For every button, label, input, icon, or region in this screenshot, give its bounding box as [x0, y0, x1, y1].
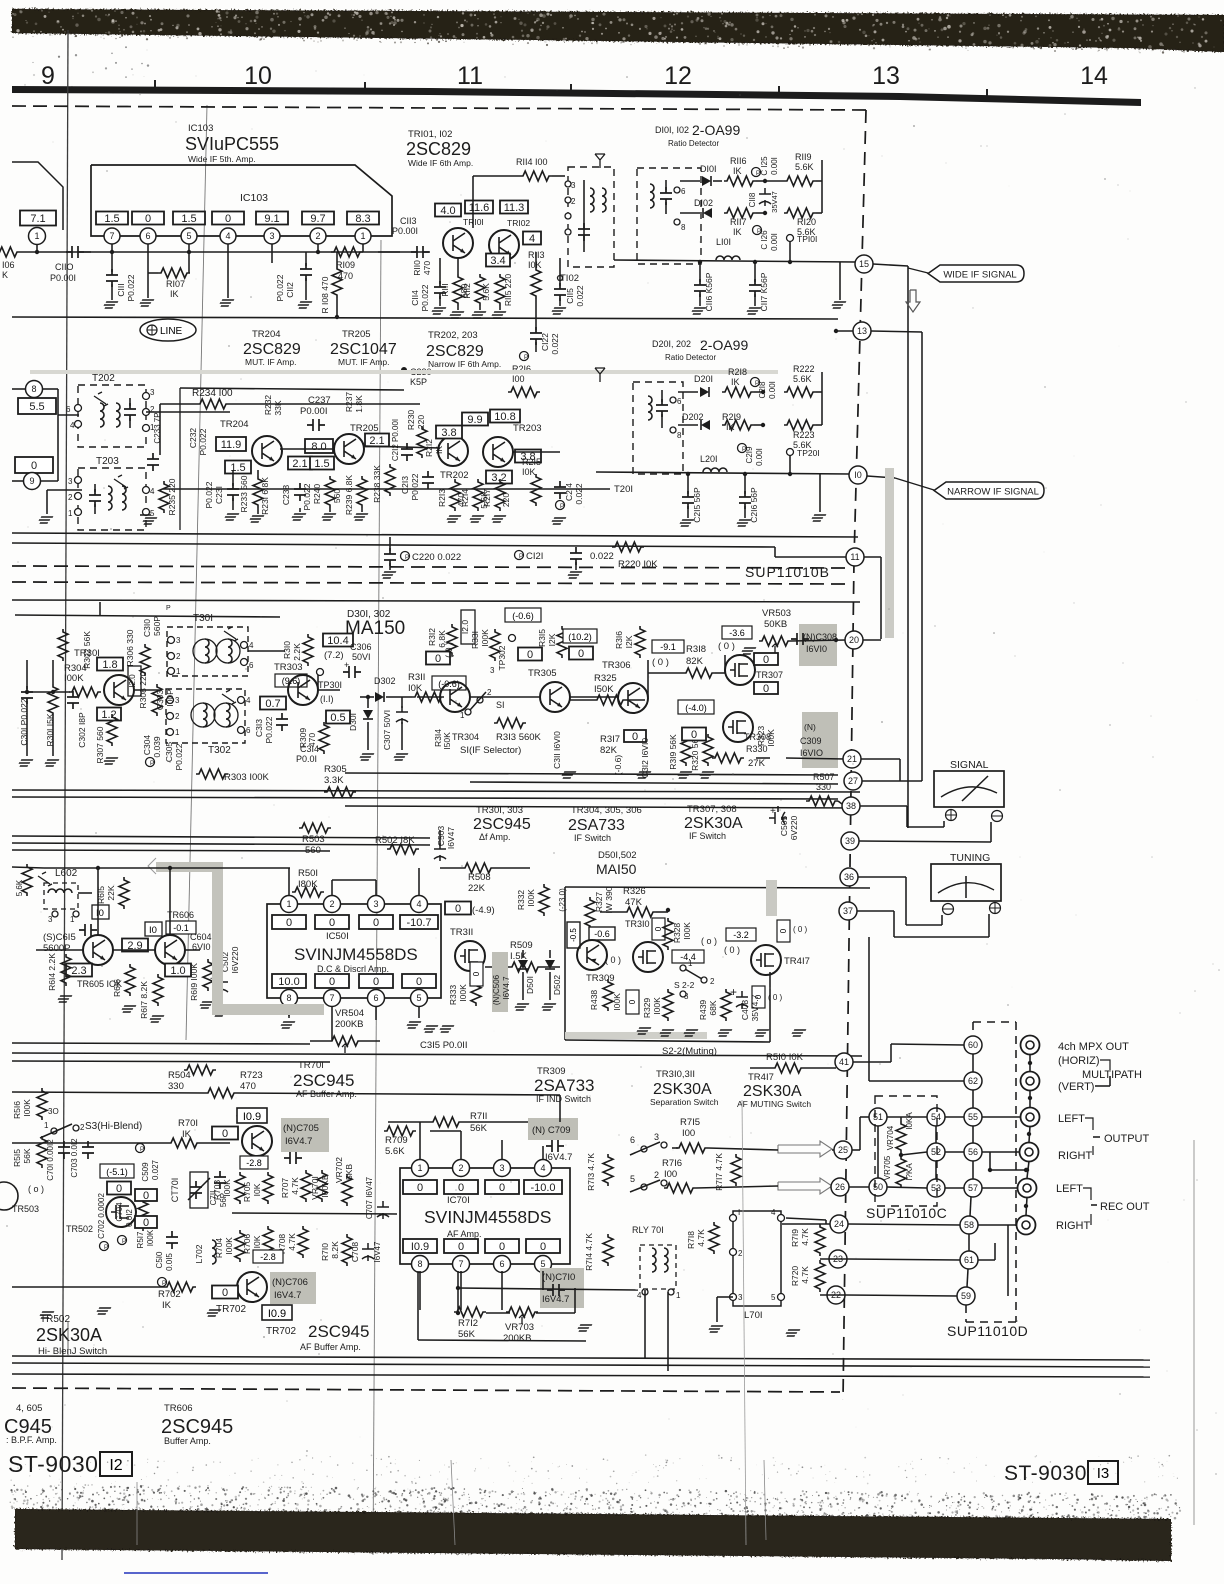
svg-text:I00K: I00K	[146, 1229, 155, 1246]
svg-text:1.5: 1.5	[181, 213, 196, 225]
resistor R219	[722, 420, 754, 430]
svg-text:4.7K: 4.7K	[800, 1228, 810, 1246]
svg-text:P0.022: P0.022	[174, 743, 184, 770]
svg-text:P: P	[560, 504, 564, 510]
svg-text:2: 2	[329, 899, 334, 909]
svg-text:I6V4.7: I6V4.7	[542, 1294, 569, 1305]
resistor R113	[531, 267, 541, 299]
wires section E	[15, 615, 280, 617]
resistor R508	[462, 863, 494, 873]
bus line E4	[470, 782, 838, 784]
coil in detector	[650, 184, 654, 208]
ruler tick	[778, 86, 780, 94]
resistor R617	[153, 974, 163, 1006]
svg-text:R307 560: R307 560	[95, 726, 105, 763]
svg-text:I6V220: I6V220	[230, 946, 240, 973]
svg-text:3: 3	[499, 1163, 504, 1173]
resistor R310	[303, 634, 313, 666]
svg-text:LINE: LINE	[160, 326, 183, 337]
capacitor C117	[749, 279, 761, 297]
svg-text:5.5: 5.5	[29, 401, 44, 413]
svg-text:SI(IF Selector): SI(IF Selector)	[460, 745, 521, 756]
svg-text:1: 1	[175, 728, 180, 737]
IC103 pin 6	[140, 228, 156, 244]
svg-text:2SK30A: 2SK30A	[684, 815, 743, 832]
transistor TR205	[334, 434, 364, 464]
svg-text:56: 56	[968, 1147, 978, 1157]
meter TUNING	[931, 864, 1001, 901]
S2-2 sub-circuit border	[565, 887, 870, 888]
IC501 voltage 0	[315, 915, 349, 929]
jack R rec	[1017, 1216, 1036, 1235]
resistor R107	[158, 268, 190, 278]
bus line G2	[12, 1053, 862, 1056]
IC103 voltage 1.5	[96, 212, 128, 226]
svg-text:R233 560: R233 560	[239, 475, 249, 512]
pin 53	[927, 1179, 945, 1197]
pin 54	[927, 1108, 945, 1126]
svg-text:58: 58	[964, 1220, 974, 1230]
svg-text:R503: R503	[302, 834, 325, 845]
resistor R329	[663, 989, 673, 1021]
svg-text:57: 57	[968, 1183, 978, 1193]
svg-text:56K: 56K	[470, 1123, 488, 1134]
capacitor C115	[554, 283, 566, 301]
wire to TR101	[378, 251, 430, 253]
svg-text:TR502: TR502	[66, 1224, 93, 1234]
svg-text:33K: 33K	[273, 400, 283, 415]
svg-text:IK: IK	[733, 166, 742, 176]
svg-text:560: 560	[332, 489, 342, 503]
svg-text:R704: R704	[214, 1238, 224, 1259]
svg-text:I2K: I2K	[547, 633, 557, 646]
dashed border E top	[12, 582, 846, 584]
svg-text:2: 2	[68, 493, 73, 502]
svg-text:R7I3 4.7K: R7I3 4.7K	[586, 1153, 596, 1191]
ground under detector	[839, 262, 841, 300]
svg-text:R7I8: R7I8	[686, 1231, 696, 1249]
svg-text:Δf Amp.: Δf Amp.	[479, 832, 511, 842]
svg-text:-3.6: -3.6	[729, 628, 745, 638]
svg-text:R305: R305	[324, 764, 347, 775]
grounds under IC501	[405, 1022, 421, 1028]
svg-text:T302: T302	[208, 745, 231, 756]
svg-text:2SC945: 2SC945	[473, 816, 531, 833]
svg-text:2SK30A: 2SK30A	[743, 1083, 802, 1100]
resistor R712	[454, 1307, 486, 1317]
svg-text:IF IND Switch: IF IND Switch	[536, 1094, 591, 1104]
test point TP101	[787, 235, 794, 242]
pin 21	[843, 750, 861, 768]
svg-text:(N)C7I0: (N)C7I0	[542, 1272, 575, 1283]
svg-text:I0K: I0K	[528, 260, 542, 270]
tag NARROW IF SIGNAL	[934, 482, 1044, 499]
svg-text:0: 0	[472, 971, 481, 976]
svg-text:I00K: I00K	[612, 993, 622, 1011]
svg-text:NARROW IF SIGNAL: NARROW IF SIGNAL	[947, 486, 1039, 497]
grey smudge strip	[885, 468, 894, 638]
svg-text:0: 0	[143, 1190, 149, 1202]
svg-text:330: 330	[816, 782, 831, 792]
resistor R326	[624, 907, 656, 917]
resistor R502	[387, 844, 419, 854]
svg-text:P: P	[150, 761, 154, 767]
svg-text:0: 0	[499, 1241, 505, 1253]
svg-text:11.9: 11.9	[221, 439, 242, 451]
svg-text:RII5 220: RII5 220	[503, 274, 513, 306]
transformer T201	[633, 382, 683, 474]
svg-text:TR202, 203: TR202, 203	[428, 330, 478, 341]
svg-text:3O: 3O	[48, 1107, 59, 1116]
svg-text:0.022: 0.022	[575, 285, 585, 307]
svg-text:IW 390: IW 390	[604, 886, 614, 913]
dashed border right edge (vertical, x~866..845)	[854, 110, 866, 560]
svg-text:10.8: 10.8	[494, 411, 515, 423]
svg-text:3: 3	[738, 1293, 743, 1302]
dashed border D bottom	[12, 566, 852, 568]
diode D201	[700, 387, 709, 397]
svg-text:C604: C604	[190, 932, 212, 942]
svg-text:68K: 68K	[708, 1000, 718, 1015]
svg-text:R7I6: R7I6	[662, 1158, 682, 1169]
svg-text:I00K: I00K	[22, 1099, 32, 1117]
IC103 voltage 0	[212, 212, 244, 226]
svg-text:S3(Hi-Blend): S3(Hi-Blend)	[85, 1121, 142, 1132]
svg-text:RI09: RI09	[336, 260, 355, 270]
svg-text:7: 7	[109, 231, 114, 241]
svg-text:4: 4	[540, 1163, 545, 1173]
svg-text:0: 0	[654, 926, 663, 931]
pin 57	[964, 1179, 982, 1197]
hollow arrows	[778, 1141, 832, 1157]
svg-text:C309: C309	[800, 736, 822, 746]
wires G right	[786, 1218, 826, 1220]
svg-text:DI0I, I02: DI0I, I02	[655, 125, 689, 135]
top black bar	[12, 9, 1224, 52]
bus line G1	[12, 1043, 310, 1044]
svg-text:L602: L602	[55, 868, 78, 879]
svg-text:I6V4.7: I6V4.7	[274, 1290, 301, 1301]
svg-text:2SC945: 2SC945	[308, 1322, 369, 1341]
pin 27	[844, 772, 862, 790]
IC701 pin 3	[494, 1160, 511, 1177]
svg-text:C2I9: C2I9	[745, 446, 754, 463]
svg-text:6V220: 6V220	[789, 815, 799, 840]
bottom row narrow: caps/resistors	[227, 483, 239, 501]
svg-text:0.7: 0.7	[265, 698, 280, 710]
T102 transformer dashed box	[568, 167, 614, 267]
jack L rec	[1018, 1179, 1037, 1198]
svg-text:I50K: I50K	[442, 732, 452, 750]
svg-text:RIGHT: RIGHT	[1058, 1150, 1093, 1162]
svg-text:24: 24	[834, 1219, 844, 1229]
svg-text:82K: 82K	[600, 745, 618, 756]
svg-text:RIII: RIII	[440, 283, 450, 296]
svg-text:13: 13	[872, 62, 900, 90]
S2-2	[680, 965, 686, 971]
pot VR503	[759, 636, 791, 653]
svg-text:0: 0	[435, 653, 441, 665]
svg-text:P0.00I: P0.00I	[50, 273, 76, 283]
svg-text:TR203: TR203	[513, 423, 542, 434]
svg-text:R237: R237	[344, 392, 354, 413]
svg-text:TP30I: TP30I	[318, 680, 342, 690]
ruler tick	[986, 89, 988, 97]
svg-text:8: 8	[681, 223, 686, 232]
svg-text:R6I7 8.2K: R6I7 8.2K	[139, 981, 149, 1019]
transformer T301	[167, 627, 248, 676]
svg-text:20: 20	[849, 635, 859, 645]
svg-text:SI: SI	[496, 700, 505, 710]
pin 59	[957, 1287, 975, 1305]
capacitor C122	[535, 317, 537, 330]
svg-text:P: P	[162, 1281, 166, 1287]
svg-text:0.00I: 0.00I	[770, 157, 779, 175]
svg-text:R7I9: R7I9	[790, 1229, 800, 1247]
svg-text:(-5.1): (-5.1)	[106, 1167, 128, 1177]
resistor R301	[48, 684, 58, 716]
resistor R222	[784, 387, 816, 397]
svg-text:R702: R702	[158, 1289, 181, 1300]
resistor R233	[253, 476, 263, 508]
svg-text:2: 2	[738, 1249, 743, 1258]
meter SIGNAL	[934, 771, 1004, 807]
svg-text:TI02: TI02	[560, 273, 579, 284]
svg-text:D.C & Discrl Amp.: D.C & Discrl Amp.	[317, 964, 389, 974]
svg-text:26: 26	[835, 1182, 845, 1192]
svg-text:P0.00I: P0.00I	[300, 406, 327, 417]
section C bottom line	[12, 317, 838, 319]
svg-text:D50I: D50I	[525, 976, 535, 994]
svg-text:41: 41	[839, 1057, 849, 1067]
transistor TR605	[83, 935, 113, 965]
svg-text:I2: I2	[109, 1457, 122, 1474]
IC501 pin 5	[411, 990, 428, 1007]
svg-text:C303: C303	[155, 690, 165, 711]
svg-text:-0.5: -0.5	[569, 928, 578, 942]
boxed 12.0 vertical right	[461, 610, 475, 644]
10.4 box / 7.2	[323, 634, 353, 648]
svg-text:DI0I: DI0I	[700, 164, 717, 174]
svg-text:I6VIO: I6VIO	[800, 748, 823, 758]
svg-text:38: 38	[846, 801, 856, 811]
svg-text:CII4: CII4	[410, 290, 420, 306]
svg-text:R23I 6.8K: R23I 6.8K	[260, 477, 270, 515]
transistor TR203	[483, 437, 513, 467]
svg-text:52: 52	[931, 1147, 941, 1157]
svg-text:R222: R222	[793, 364, 815, 374]
svg-text:RLY 70I: RLY 70I	[632, 1225, 664, 1235]
svg-text:R2I3: R2I3	[437, 489, 447, 507]
svg-text:10.0: 10.0	[278, 976, 299, 988]
svg-text:2: 2	[175, 712, 180, 721]
pot VR703	[506, 1307, 538, 1324]
svg-text:(-0.6): (-0.6)	[613, 755, 623, 775]
ratio detector 1 dashed box	[637, 168, 701, 264]
svg-text:0: 0	[145, 213, 151, 225]
IC103 voltage 1.5	[173, 212, 205, 226]
svg-text:CI22: CI22	[540, 333, 550, 351]
svg-text:10: 10	[244, 62, 272, 90]
svg-text:R709: R709	[385, 1135, 408, 1146]
svg-text:K5P: K5P	[410, 377, 427, 387]
svg-text:0: 0	[225, 213, 231, 225]
svg-text:1: 1	[68, 509, 73, 518]
svg-text:TR4I7: TR4I7	[784, 956, 810, 967]
svg-text:MULTIPATH: MULTIPATH	[1082, 1069, 1142, 1081]
svg-text:CIII: CIII	[116, 283, 126, 296]
resistor R516	[37, 1088, 47, 1120]
svg-text:Wide IF 6th Amp.: Wide IF 6th Amp.	[408, 158, 473, 168]
IC501 pin 3	[368, 896, 385, 913]
svg-text:CII8: CII8	[748, 192, 757, 207]
svg-text:R332: R332	[516, 890, 526, 911]
svg-text:C503: C503	[436, 826, 446, 847]
svg-text:I0KA: I0KA	[905, 1112, 914, 1130]
svg-text:6: 6	[630, 1135, 635, 1145]
svg-text:560: 560	[305, 845, 321, 856]
svg-text:5.6K: 5.6K	[793, 374, 812, 384]
svg-text:P0.022: P0.022	[420, 284, 430, 311]
IC501 voltage 0	[272, 915, 306, 929]
transistor TR102	[489, 230, 519, 260]
resistor R315	[557, 626, 567, 658]
pin 60	[964, 1036, 982, 1054]
svg-text:D50I,502: D50I,502	[598, 850, 637, 861]
svg-text:VR703: VR703	[505, 1322, 534, 1333]
bus line bottom 1	[12, 1356, 1150, 1360]
svg-text:4.0: 4.0	[440, 205, 455, 217]
svg-text:2SK30A: 2SK30A	[653, 1081, 712, 1098]
svg-text:R329: R329	[642, 998, 652, 1019]
svg-text:: B.P.F. Amp.: : B.P.F. Amp.	[6, 1435, 57, 1445]
pin 20	[791, 640, 846, 641]
svg-text:RI20: RI20	[797, 217, 816, 227]
scan fold lines	[62, 30, 68, 1560]
IC501 pin 1	[281, 896, 298, 913]
svg-text:I2.0: I2.0	[460, 620, 470, 634]
svg-text:R504: R504	[168, 1070, 191, 1081]
svg-text:0.00I: 0.00I	[770, 233, 779, 251]
svg-text:+: +	[344, 660, 349, 670]
ruler tick	[570, 84, 572, 92]
svg-text:D302: D302	[374, 676, 396, 686]
svg-text:TR702: TR702	[216, 1304, 246, 1315]
IC103 pin 7	[104, 228, 120, 244]
svg-text:C232: C232	[188, 428, 198, 449]
wire 25->51	[852, 1149, 860, 1151]
right bus wire B	[921, 332, 923, 781]
transistor TR305	[540, 682, 570, 712]
svg-text:IK: IK	[170, 289, 179, 299]
column verticals	[972, 1054, 974, 1072]
svg-text:4: 4	[225, 231, 230, 241]
transistor TR308	[723, 712, 753, 742]
svg-text:SUP11010C: SUP11010C	[866, 1205, 947, 1221]
transistor TR310	[633, 942, 663, 972]
svg-text:2.2K: 2.2K	[292, 643, 302, 661]
svg-text:R7I7 4.7K: R7I7 4.7K	[714, 1153, 724, 1191]
svg-text:IF Switch: IF Switch	[689, 831, 726, 841]
svg-text:RII0: RII0	[412, 260, 422, 276]
IC U701 SVINJM4558DS	[400, 1168, 570, 1264]
svg-text:4.7K: 4.7K	[800, 1266, 810, 1284]
resistor R615	[119, 877, 129, 909]
svg-text:4.7K: 4.7K	[696, 1229, 706, 1247]
svg-text:L70I: L70I	[744, 1310, 763, 1321]
svg-text:R3II: R3II	[408, 672, 425, 683]
IC701 pin 5	[535, 1256, 552, 1273]
svg-text:T20I: T20I	[614, 484, 633, 495]
svg-text:1: 1	[70, 915, 75, 924]
pin 55	[964, 1108, 982, 1126]
resistor R713	[603, 1154, 613, 1186]
transistor TR307	[725, 655, 755, 685]
svg-text:56K: 56K	[22, 1148, 32, 1163]
svg-text:9.1: 9.1	[264, 213, 279, 225]
IC501 pin 2	[324, 896, 341, 913]
pot VR504	[329, 1036, 361, 1053]
svg-text:3: 3	[571, 181, 576, 190]
svg-text:R2I9: R2I9	[722, 412, 741, 422]
svg-text:3: 3	[48, 915, 53, 924]
svg-text:2: 2	[176, 652, 181, 661]
svg-text:0: 0	[329, 917, 335, 929]
svg-text:R703: R703	[212, 1180, 222, 1201]
svg-text:C302 I8P: C302 I8P	[77, 712, 87, 748]
svg-text:REC OUT: REC OUT	[1100, 1201, 1150, 1213]
svg-text:11: 11	[850, 552, 859, 562]
svg-text:TR307, 308: TR307, 308	[687, 804, 737, 815]
svg-text:4ch MPX OUT: 4ch MPX OUT	[1058, 1041, 1129, 1053]
svg-text:R3I2: R3I2	[427, 628, 437, 646]
svg-text:TR3II: TR3II	[450, 927, 473, 938]
svg-text:1: 1	[688, 959, 693, 968]
capacitor C121b	[570, 547, 582, 565]
svg-text:0: 0	[691, 729, 697, 741]
resistor R701	[168, 1138, 200, 1148]
svg-text:I00K: I00K	[682, 922, 692, 940]
resistor R328	[663, 918, 673, 950]
svg-text:2SC945: 2SC945	[161, 1416, 233, 1438]
svg-text:R223: R223	[793, 430, 815, 440]
svg-text:IC103: IC103	[240, 192, 268, 204]
svg-text:VR503: VR503	[762, 608, 791, 619]
svg-text:( 0 ): ( 0 )	[605, 955, 621, 965]
resistor 106K partial	[0, 247, 20, 257]
svg-text:2-OA99: 2-OA99	[700, 337, 748, 353]
transformer T302	[166, 689, 245, 743]
svg-text:0.00I: 0.00I	[755, 448, 764, 466]
resistor R214	[473, 479, 483, 511]
IC501 pin 8	[281, 990, 298, 1007]
resistor R302	[58, 629, 68, 661]
svg-text:TRI02: TRI02	[507, 218, 530, 228]
svg-text:0: 0	[763, 683, 769, 695]
svg-text:SVIuPC555: SVIuPC555	[185, 134, 279, 154]
IC701 pin 1	[412, 1160, 429, 1177]
svg-text:P: P	[524, 355, 528, 361]
svg-text:C2I8: C2I8	[758, 381, 767, 398]
pin 24	[830, 1215, 848, 1233]
svg-text:TR304, 305, 306: TR304, 305, 306	[571, 805, 642, 816]
resistor R304	[69, 687, 101, 697]
svg-text:-9.1: -9.1	[660, 642, 676, 652]
IC103 pin 2	[310, 228, 326, 244]
capacitor C126	[753, 226, 762, 235]
transistor TR417	[751, 945, 781, 975]
wires into AF from left	[559, 1095, 561, 1122]
